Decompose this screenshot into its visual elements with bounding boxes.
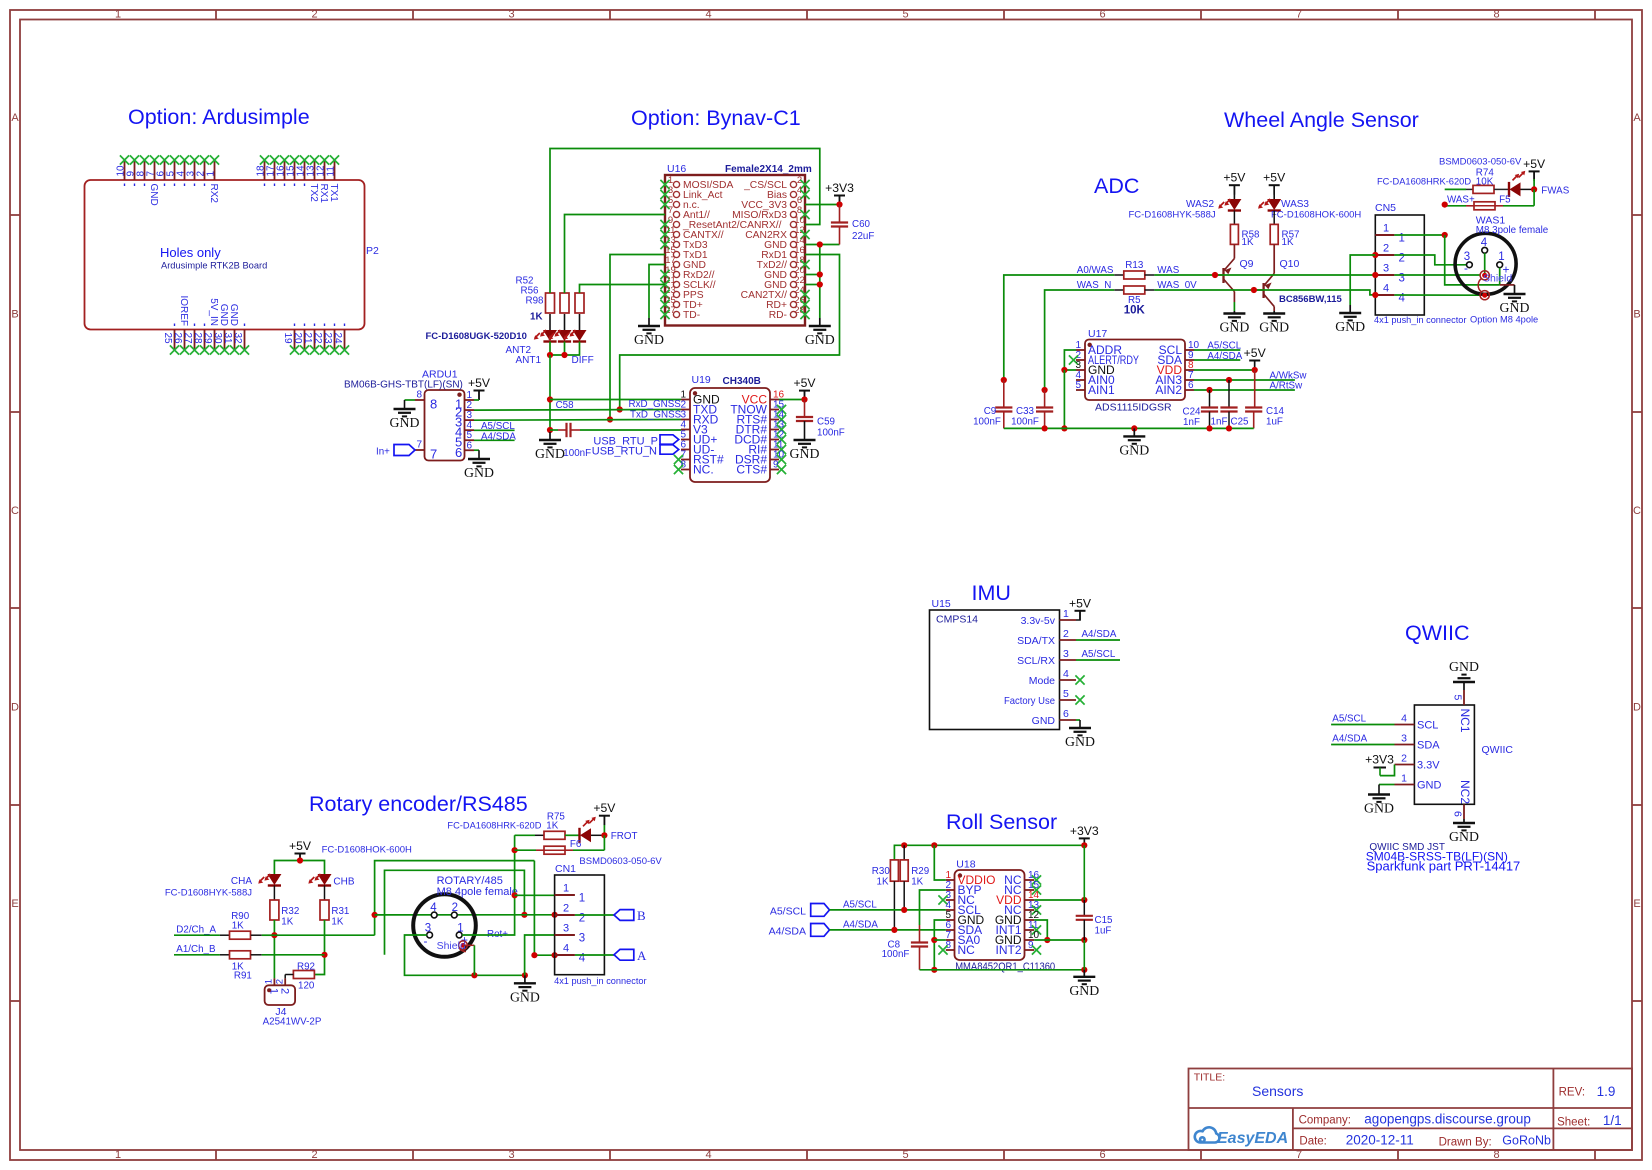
- power +5V at WAS3: [1263, 171, 1286, 199]
- svg-text:8: 8: [430, 397, 437, 412]
- svg-text:GND: GND: [510, 989, 540, 1004]
- svg-text:31: 31: [222, 333, 233, 345]
- svg-text:A5/SCL: A5/SCL: [843, 900, 877, 911]
- svg-text:IMU: IMU: [972, 581, 1011, 605]
- svg-text:RxD_GNSS: RxD_GNSS: [629, 399, 682, 410]
- svg-text:RD-: RD-: [769, 310, 787, 321]
- svg-text:GND: GND: [1500, 300, 1530, 315]
- net label A5/SCL at U15 pin3: [1076, 649, 1120, 660]
- wire U18 SA0 to GND riser: [934, 939, 946, 941]
- svg-text:U16: U16: [667, 163, 686, 175]
- ground U16 right: [805, 318, 835, 347]
- P2 pin 19: [282, 324, 299, 355]
- svg-text:GND: GND: [1032, 715, 1056, 727]
- ROTARY pin 1: [456, 923, 468, 948]
- P2 pin 23: [322, 324, 339, 355]
- svg-text:8: 8: [680, 460, 686, 471]
- svg-text:FROT: FROT: [611, 831, 638, 842]
- svg-text:Q9: Q9: [1240, 258, 1254, 270]
- P2 pin 28: [192, 324, 209, 355]
- svg-text:24: 24: [332, 333, 343, 345]
- net label FWAS: [1541, 186, 1569, 197]
- resistor R92 120: [285, 962, 315, 992]
- U18 pin 13 NC: [1004, 900, 1041, 917]
- capacitor C9 100nF: [973, 380, 1012, 428]
- section title: Option: Bynav-C1: [631, 106, 801, 130]
- svg-text:R32: R32: [281, 906, 299, 917]
- svg-text:SCL/RX: SCL/RX: [1017, 655, 1055, 667]
- svg-text:B: B: [637, 908, 646, 923]
- ARDU1 pin 2: [455, 400, 474, 420]
- resistor R74 10K: [1445, 168, 1509, 194]
- U18 pin 5 GND: [945, 910, 984, 927]
- U16 pin 21 SCLK//: [660, 275, 715, 291]
- svg-text:1.9: 1.9: [1597, 1084, 1616, 1099]
- P2 pin 14: [296, 155, 310, 186]
- LED FROT: [580, 817, 605, 843]
- svg-text:AIN1: AIN1: [1088, 383, 1115, 397]
- svg-text:WAS2: WAS2: [1186, 199, 1214, 210]
- svg-text:13: 13: [306, 165, 317, 177]
- svg-text:FC-D1608HOK-600H: FC-D1608HOK-600H: [1271, 210, 1361, 221]
- wire CN5 pin2 to M8 pin3: [1394, 255, 1466, 265]
- svg-text:ADC: ADC: [1094, 174, 1139, 198]
- wire Q9 emitter to ground: [1233, 302, 1235, 311]
- LED ANT2: [505, 314, 557, 356]
- svg-text:100nF: 100nF: [817, 428, 845, 439]
- power +5V at U19 pin16: [793, 376, 816, 400]
- fuse F5: [1442, 189, 1535, 209]
- svg-text:1nF: 1nF: [1183, 417, 1200, 428]
- svg-text:+5V: +5V: [593, 801, 616, 815]
- ARDU1 pin 5: [455, 430, 474, 450]
- svg-text:Sensors: Sensors: [1252, 1083, 1303, 1099]
- ARDU1 pin 1: [455, 390, 474, 412]
- wire CN5 pin4 to shield pad bottom: [1394, 294, 1480, 296]
- U16 pin 9 _ResetAnt2/CANRX//: [660, 215, 781, 231]
- wire CN1 pin1 feed: [515, 894, 555, 896]
- svg-text:Q10: Q10: [1280, 258, 1300, 270]
- wire WAS_0V to CN5 pin4: [1154, 287, 1375, 295]
- LED CHA: [231, 874, 282, 887]
- svg-text:+3V3: +3V3: [1365, 753, 1394, 767]
- power +5V at U17 VDD: [1244, 346, 1267, 370]
- P2 pin 25: [162, 324, 179, 355]
- U16 pin 10 nc: [790, 215, 804, 228]
- svg-text:CN5: CN5: [1375, 202, 1396, 214]
- resistor R52: [516, 276, 555, 314]
- U18 pin 10 GND: [995, 930, 1040, 947]
- wire riser to CN1 pin4: [531, 861, 557, 959]
- svg-text:A4/SDA: A4/SDA: [769, 926, 806, 938]
- svg-text:4: 4: [705, 1149, 711, 1161]
- svg-text:9: 9: [126, 171, 137, 177]
- wire U19 pin16 to +5V: [779, 396, 808, 402]
- CN5 pin 1: [1375, 223, 1405, 245]
- svg-text:Roll Sensor: Roll Sensor: [946, 810, 1057, 834]
- svg-text:GND: GND: [1065, 734, 1095, 749]
- P2 pin 5: [166, 155, 180, 186]
- svg-text:100nF: 100nF: [882, 949, 910, 960]
- wire CN1 pin2 to B flag: [575, 914, 614, 916]
- U18 pin 6 SDA: [945, 920, 982, 937]
- svg-text:BM06B-GHS-TBT(LF)(SN): BM06B-GHS-TBT(LF)(SN): [344, 380, 463, 391]
- svg-text:Shield: Shield: [1483, 273, 1512, 285]
- svg-text:100nF: 100nF: [563, 448, 591, 459]
- ROTARY pin 2: [451, 902, 458, 918]
- svg-text:3: 3: [186, 171, 197, 177]
- svg-text:R13: R13: [1125, 260, 1144, 271]
- ROTARY pin 4: [430, 902, 437, 918]
- wire U17 VDD to +5V: [1194, 367, 1258, 373]
- U18 pin 8 NC: [938, 940, 975, 957]
- CN1 pin 1: [555, 883, 586, 905]
- svg-text:A4/SDA: A4/SDA: [1082, 629, 1117, 640]
- svg-text:ANT1: ANT1: [515, 355, 541, 366]
- svg-text:1: 1: [115, 9, 121, 21]
- P2 pin 6: [156, 155, 170, 186]
- U19 pin 6 UD-: [680, 440, 714, 457]
- svg-text:1: 1: [1383, 223, 1389, 235]
- resistor R30 1K: [872, 860, 899, 930]
- U16 pin 8 MISO/RxD3: [732, 205, 810, 221]
- svg-text:1K: 1K: [331, 917, 343, 928]
- svg-text:1K: 1K: [232, 921, 244, 932]
- svg-text:NC: NC: [958, 943, 976, 957]
- wire U18 pin10 GND to C15 rail: [1034, 937, 1087, 943]
- ground under C59: [790, 440, 820, 461]
- U19 pin 11 RI#: [748, 440, 786, 457]
- net label A5/SCL at QWIIC: [1331, 714, 1394, 725]
- U19 pin 13 DTR#: [736, 420, 786, 437]
- svg-text:AIN2: AIN2: [1155, 383, 1182, 397]
- U16 pin 28 RD-: [769, 305, 810, 321]
- svg-text:A5/SCL: A5/SCL: [770, 906, 806, 918]
- U18 pin 7 SA0: [945, 930, 980, 947]
- svg-text:R31: R31: [331, 906, 349, 917]
- svg-text:GND: GND: [1335, 319, 1365, 334]
- output flag B: [614, 908, 646, 923]
- WAS1 pin 3: [1464, 251, 1473, 275]
- wire encoder row to CN1 pin2: [375, 912, 558, 918]
- connector P2 Ardusimple board outline: [85, 180, 380, 330]
- CN1 pin 3: [555, 923, 586, 945]
- svg-text:18: 18: [256, 165, 267, 177]
- svg-text:10K: 10K: [1476, 177, 1494, 188]
- svg-text:BSMD0603-050-6V: BSMD0603-050-6V: [579, 856, 662, 867]
- U15 pin 3 SCL/RX: [1017, 648, 1076, 667]
- IC U17 ADS1115IDGSR body: [1085, 328, 1185, 414]
- P2 pin 31: [222, 304, 239, 355]
- svg-text:Option: Ardusimple: Option: Ardusimple: [128, 105, 310, 129]
- svg-text:1K: 1K: [546, 821, 558, 832]
- svg-text:4: 4: [563, 943, 569, 955]
- WAS1 pin 1: [1497, 251, 1510, 277]
- ground at ARDU1 pin8: [390, 409, 420, 430]
- label FC-DA1608HRK-620D rotary: [447, 820, 541, 830]
- net label WAS_N: [1077, 280, 1111, 291]
- svg-text:17: 17: [266, 165, 277, 177]
- svg-text:Company:: Company:: [1299, 1114, 1351, 1126]
- ARDU1 pin 4: [455, 420, 474, 440]
- svg-text:GND: GND: [1259, 320, 1289, 335]
- connector ROTARY/485 M8 4pole circle: [413, 875, 518, 957]
- resistor R91 1K: [220, 951, 262, 982]
- P2 pin 24: [332, 324, 349, 355]
- svg-text:19: 19: [282, 333, 293, 345]
- ROTARY pin 3: [424, 923, 433, 949]
- U16 pin 24 CAN2TX//: [741, 285, 810, 301]
- svg-text:3: 3: [1383, 263, 1389, 275]
- svg-text:GND: GND: [790, 446, 820, 461]
- svg-text:GND: GND: [1417, 780, 1442, 792]
- U19 pin 7 RST#: [674, 450, 724, 467]
- wire CN5 pin2 to ground: [1350, 255, 1375, 305]
- wire A4/SDA to U18 SDA: [830, 920, 946, 934]
- IC U15 CMPS14 body: [930, 598, 1060, 730]
- wire CN5 pin3 to shield pad: [1394, 274, 1480, 276]
- U16 pin 2 _CS/SCL: [743, 175, 810, 191]
- svg-text:ADS1115IDGSR: ADS1115IDGSR: [1095, 402, 1172, 414]
- wire D2/Ch_A riser to FROT rail: [372, 861, 535, 936]
- svg-text:1K: 1K: [911, 877, 923, 888]
- svg-text:22uF: 22uF: [852, 231, 874, 242]
- wire U18 VDD to +3V3 rail: [1034, 897, 1087, 903]
- svg-text:Rotary encoder/RS485: Rotary encoder/RS485: [309, 792, 528, 816]
- U16 pin 7 Ant1//: [668, 205, 710, 221]
- WAS1 pin 4: [1481, 237, 1488, 253]
- P2 pin 12: [316, 155, 330, 203]
- svg-text:2: 2: [274, 979, 285, 984]
- IC U19 CH340B body: [690, 374, 770, 482]
- svg-text:GND: GND: [228, 304, 239, 326]
- svg-text:FC-D1608HOK-600H: FC-D1608HOK-600H: [322, 845, 412, 856]
- U16 pin 27 TD-: [660, 305, 700, 321]
- wire U16 pin15 TxD1 down to U19 pin3 net: [607, 255, 665, 423]
- svg-text:FC-D1608HYK-588J: FC-D1608HYK-588J: [1129, 210, 1216, 221]
- P2 pin 13: [306, 155, 320, 202]
- U18 pin 3 NC: [938, 890, 975, 907]
- wire A1/Ch_B riser: [385, 870, 528, 955]
- svg-text:CHB: CHB: [333, 877, 354, 888]
- svg-text:28: 28: [192, 333, 203, 345]
- svg-text:F5: F5: [1499, 195, 1511, 206]
- svg-text:8: 8: [416, 390, 422, 401]
- svg-text:GND: GND: [148, 184, 159, 206]
- svg-text:+3V3: +3V3: [825, 181, 854, 195]
- U19 pin 4 V3: [680, 420, 708, 437]
- U18 pin 15 NC: [1004, 880, 1041, 897]
- U19 pin 5 UD+: [680, 430, 717, 447]
- svg-text:3: 3: [508, 9, 514, 21]
- net label A5/SCL at U17 SCL: [1194, 341, 1242, 352]
- title block: [1189, 1069, 1633, 1151]
- wire U18 pin12 to pin10: [1034, 920, 1050, 943]
- U17 pin 6 AIN2: [1155, 380, 1194, 397]
- svg-text:A2541WV-2P: A2541WV-2P: [263, 1017, 322, 1028]
- svg-text:22: 22: [312, 333, 323, 345]
- svg-text:EasyEDA: EasyEDA: [1217, 1130, 1288, 1147]
- svg-text:4x1 push_in connector: 4x1 push_in connector: [1374, 315, 1466, 325]
- junction FROT: [601, 832, 607, 838]
- svg-text:7: 7: [430, 447, 437, 462]
- LED WAS3: [1258, 199, 1309, 211]
- wire ROTARY pin3 to ground rail: [405, 935, 529, 978]
- LED ANT1: [515, 314, 571, 366]
- ground at WAS1 shield: [1500, 294, 1530, 315]
- net label A0/WAS: [1077, 265, 1114, 276]
- connector WAS1 M8 3pole female circle: [1455, 215, 1549, 295]
- svg-text:5V_IN: 5V_IN: [208, 298, 219, 326]
- svg-text:26: 26: [172, 333, 183, 345]
- U16 pin 16 RxD1: [761, 245, 805, 261]
- wire R32 to D2/Ch_A wire and J4 pin1: [271, 920, 277, 978]
- svg-text:2020-12-11: 2020-12-11: [1346, 1133, 1414, 1148]
- U15 pin 2 SDA/TX: [1017, 628, 1076, 647]
- svg-text:E: E: [1633, 898, 1640, 910]
- connector J4 A2541WV-2P: [263, 978, 322, 1027]
- U18 pin 9 INT2: [995, 940, 1041, 957]
- svg-text:TX2: TX2: [308, 184, 319, 203]
- CN5 pin 2: [1372, 243, 1405, 265]
- svg-text:NC1: NC1: [1458, 709, 1472, 733]
- svg-text:1uF: 1uF: [1095, 926, 1112, 937]
- svg-text:1K: 1K: [877, 877, 889, 888]
- label FC-D1608UGK-520D10: [426, 331, 527, 342]
- svg-text:WAS3: WAS3: [1281, 199, 1309, 210]
- svg-text:GND: GND: [805, 332, 835, 347]
- svg-text:1K: 1K: [281, 917, 293, 928]
- svg-text:GND: GND: [1219, 320, 1249, 335]
- svg-text:R98: R98: [526, 296, 545, 307]
- svg-text:5: 5: [1452, 695, 1464, 701]
- svg-text:15: 15: [286, 165, 297, 177]
- svg-text:1: 1: [1401, 773, 1407, 785]
- label BSMD0603-050-6V rotary: [579, 856, 662, 867]
- svg-text:+5V: +5V: [1263, 171, 1286, 185]
- svg-text:1/1: 1/1: [1603, 1113, 1622, 1128]
- power +3V3 at Roll Sensor: [1070, 824, 1099, 846]
- wire shield pad to ground rail: [463, 945, 474, 975]
- svg-text:27: 27: [182, 333, 193, 345]
- svg-text:5: 5: [166, 171, 177, 177]
- CN5 pin 3: [1372, 263, 1405, 285]
- U18 pin 16 NC: [1004, 870, 1041, 887]
- net label A4/SDA at QWIIC: [1331, 734, 1394, 745]
- svg-text:GoRoNb: GoRoNb: [1502, 1134, 1551, 1148]
- P2 pin 7: [146, 155, 160, 205]
- fuse F6: [515, 835, 605, 854]
- net label A1/Ch_B: [174, 944, 220, 955]
- svg-text:Ardusimple RTK2B Board: Ardusimple RTK2B Board: [161, 261, 267, 271]
- wire ARDU1 pin2 to U19 pin2: [474, 399, 681, 410]
- wire R92 to J4 pin2: [284, 975, 286, 979]
- connector CN5 4x1 push_in: [1374, 202, 1466, 325]
- svg-text:2: 2: [1401, 753, 1407, 765]
- svg-text:C14: C14: [1266, 406, 1285, 417]
- LED FWAS: [1509, 171, 1534, 197]
- svg-text:C60: C60: [852, 219, 871, 230]
- wire ARDU1 pin1 to +5V: [474, 399, 479, 401]
- svg-text:2: 2: [278, 988, 290, 994]
- svg-text:USB_RTU_N: USB_RTU_N: [592, 446, 657, 458]
- U17 pin 8 VDD: [1157, 360, 1194, 377]
- wire U18 pin5 GND down: [931, 920, 946, 973]
- svg-text:E: E: [11, 898, 18, 910]
- resistor R5 10K horizontal: [1114, 286, 1154, 317]
- wire U18 BYP to C8: [920, 890, 946, 925]
- ground at ARDU1 pin6: [464, 459, 494, 480]
- svg-text:M8 3pole female: M8 3pole female: [1476, 225, 1549, 236]
- power +5V at WAS2: [1223, 171, 1246, 199]
- svg-text:4x1 push_in connector: 4x1 push_in connector: [554, 976, 646, 986]
- capacitor C59 100nF: [796, 400, 845, 441]
- wire R90 to junction: [262, 934, 275, 936]
- wire WAS1 pin1 down: [1499, 268, 1501, 285]
- label Sparkfunk part PRT-14417: [1367, 859, 1521, 874]
- net label A4/SDA at ARDU1 pin5: [474, 431, 516, 442]
- U17 pin 3 GND: [1075, 360, 1115, 377]
- svg-text:D: D: [1633, 702, 1641, 714]
- wire QWIIC pin1 to ground: [1379, 785, 1395, 795]
- svg-text:32: 32: [232, 333, 243, 345]
- wire WAS+ vertical: [1445, 235, 1500, 285]
- P2 pin 22: [312, 324, 329, 355]
- svg-text:Date:: Date:: [1299, 1136, 1327, 1148]
- wire GND to U19 pin1: [550, 399, 681, 401]
- ROTARY shield pad: [437, 940, 468, 952]
- svg-text:NC2: NC2: [1458, 780, 1472, 804]
- power +3V3 at QWIIC pin2: [1365, 753, 1394, 776]
- svg-text:12: 12: [316, 165, 327, 177]
- wire U16 right GND pins: [805, 241, 840, 318]
- svg-text:2: 2: [563, 903, 569, 915]
- svg-text:FC-DA1608HRK-620D: FC-DA1608HRK-620D: [447, 820, 541, 830]
- svg-text:Holes only: Holes only: [160, 245, 221, 260]
- svg-text:10: 10: [116, 165, 127, 177]
- resistor R98: [526, 293, 584, 323]
- wire ANT net to GND rail: [547, 355, 553, 433]
- wire U16 pin17 to ground: [649, 265, 665, 319]
- svg-text:A5/SCL: A5/SCL: [1082, 649, 1116, 660]
- U17 pin 5 AIN1: [1075, 380, 1115, 397]
- svg-text:-: -: [424, 934, 428, 948]
- P2 pin 27: [182, 324, 199, 355]
- svg-text:1K: 1K: [1242, 237, 1254, 248]
- svg-text:+5V: +5V: [1223, 171, 1246, 185]
- svg-text:6: 6: [1063, 708, 1069, 720]
- svg-text:1: 1: [264, 979, 275, 984]
- svg-text:3: 3: [579, 933, 585, 945]
- svg-text:20: 20: [292, 333, 303, 345]
- svg-text:C24: C24: [1183, 407, 1202, 418]
- svg-text:10K: 10K: [1124, 305, 1146, 317]
- svg-text:3: 3: [1063, 648, 1069, 660]
- P2 pin 20: [292, 324, 309, 355]
- svg-text:1: 1: [1498, 251, 1504, 263]
- output flag A: [614, 948, 647, 963]
- svg-text:REV:: REV:: [1559, 1087, 1585, 1099]
- U16 pin 11 CANTX//: [660, 225, 723, 241]
- no-connect U15 pin5: [1075, 695, 1084, 704]
- svg-text:U18: U18: [956, 859, 975, 871]
- svg-text:1K: 1K: [530, 312, 543, 323]
- resistor R13 horizontal: [1114, 260, 1154, 279]
- ground under C58: [535, 432, 565, 461]
- U17 pin 1 ADDR: [1075, 340, 1122, 357]
- wire A0/WAS to U17 AIN0: [1001, 275, 1114, 383]
- svg-text:+5V: +5V: [1523, 157, 1546, 171]
